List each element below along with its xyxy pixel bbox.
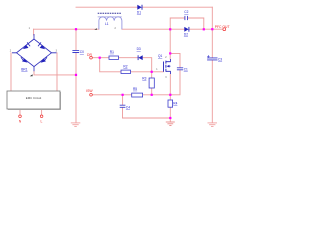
junction dots [75,28,214,119]
wire bridge top pin [33,29,35,35]
wire R5 to source column [143,94,171,96]
node gate tee [151,71,153,73]
svg-text:ISW: ISW [86,89,93,93]
svg-text:R4: R4 [173,101,177,105]
diode D1 [137,5,142,15]
svg-text:C1: C1 [184,68,188,72]
svg-text:R5: R5 [133,87,137,91]
svg-text:L1: L1 [105,22,109,26]
wire top rail left segment [34,28,99,30]
wire DR row to R1 [92,57,109,59]
capacitor C0 [72,50,84,54]
wire C4 column upper [122,95,124,105]
wire C1 branch bottom [170,70,180,95]
ground (C0 column) [71,123,81,127]
wire ISW row to R5 [92,94,131,96]
wire C4 column lower [122,108,124,119]
wire R3 top stub [151,72,153,78]
wire C2 branch [170,18,204,29]
bridge rectifier BR1 [10,28,58,76]
svg-text:DR: DR [87,53,92,57]
svg-text:R2: R2 [123,64,127,68]
wire bridge right pin to EMC [56,53,58,91]
node R3 bottom tee [151,94,153,96]
svg-text:C2: C2 [184,10,188,14]
svg-text:C4: C4 [126,105,130,109]
wire output rail right of D2 [189,28,223,30]
node output column on rail [211,28,213,30]
svg-text:BR1: BR1 [21,67,27,71]
node bottom rail / ground1 [169,117,171,119]
resistor R3 [142,77,154,88]
wire gate lead [152,71,164,73]
capacitor C2 [184,10,188,20]
capacitor C3 [207,55,222,61]
ground (bottom rail) [166,122,175,126]
wire right column C3 to ground [211,60,213,122]
node C4 tee [122,94,124,96]
wire bridge bottom row [34,71,76,75]
diode D3 [137,47,143,60]
svg-text:D1: D1 [137,11,141,15]
wire R1 to D3 [119,57,138,59]
capacitor C4 [120,105,131,109]
port ISW [86,89,93,96]
transistor Q1 (N-MOSFET) [156,54,170,79]
wire R3 bottom stub [151,88,153,95]
svg-text:D3: D3 [137,47,141,51]
wire EMC N stub [19,109,21,115]
wire C1 branch top [170,53,180,67]
capacitor C1 [177,68,188,72]
node bridge bottom / C0 column [75,74,77,76]
port DR [87,53,92,59]
EMC circuit box [7,91,61,110]
svg-text:C0: C0 [80,50,84,54]
wire EMC L stub [41,109,43,115]
wire C0 column to ground [75,75,77,122]
wire R2 to gate junction [130,71,151,73]
wire bottom rail [123,117,171,119]
ground (output column) [208,123,218,127]
port L [40,115,43,124]
node C1 top tee [169,52,171,54]
wire top rail right of L1 [122,28,184,30]
resistor R5 [132,87,143,97]
node source/C1 tee [169,94,171,96]
svg-text:Q1: Q1 [158,54,162,58]
svg-text:R1: R1 [110,50,114,54]
resistor R1 [109,50,119,60]
inductor L1 [94,13,122,30]
wire source column [169,74,171,100]
wire C0 column upper [75,29,77,50]
svg-text:R3: R3 [142,77,146,81]
diode D2 [184,27,189,36]
wire top branch left of D1 [76,6,137,8]
wire R4 to bottom rail [169,107,171,118]
wire C0 column lower [75,53,77,75]
node C2 right on rail [203,28,205,30]
svg-text:PFC OUT: PFC OUT [215,25,230,29]
node top rail / C0 column [75,28,77,30]
wire bridge left pin to EMC [10,53,12,91]
node drain junction on rail [169,28,171,30]
port N [19,115,22,124]
node DR tee [99,57,101,59]
svg-text:C3: C3 [218,57,222,61]
svg-text:L: L [41,120,43,124]
wire right column top to C3 [211,7,213,57]
wire ground1 stub [169,118,171,122]
svg-text:D2: D2 [184,32,188,36]
wire drain column [169,29,171,59]
resistor R2 [121,64,131,73]
wire D3 to corner [143,58,152,72]
wire R2 branch left [100,58,121,72]
svg-text:EMC Circuit: EMC Circuit [26,96,42,100]
port PFC OUT [215,25,230,31]
wire top branch right of D1 [143,6,213,8]
resistor R4 [168,100,178,107]
